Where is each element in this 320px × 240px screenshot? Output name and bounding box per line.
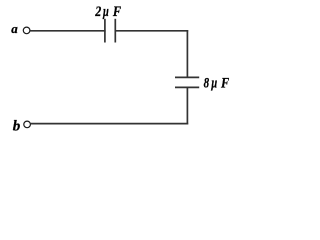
- svg-text:a: a: [11, 21, 18, 36]
- svg-text:8: 8: [204, 75, 210, 91]
- svg-text:μ: μ: [211, 75, 217, 91]
- svg-text:b: b: [13, 118, 21, 134]
- svg-text:2: 2: [94, 4, 101, 20]
- svg-text:F: F: [220, 75, 229, 91]
- svg-text:μ: μ: [102, 4, 108, 20]
- svg-text:F: F: [112, 4, 121, 20]
